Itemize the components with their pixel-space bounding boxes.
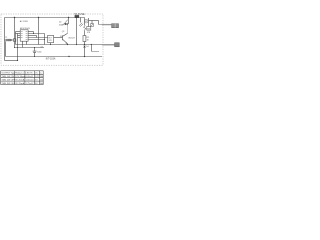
wire contact horizontal xyxy=(91,50,99,52)
wire x=91.3 contact drop xyxy=(90,45,92,52)
svg-text:OUTPUT Typ: OUTPUT Typ xyxy=(1,73,15,75)
svg-text:TMG 3W OFF: TMG 3W OFF xyxy=(1,83,15,85)
wire external cable top xyxy=(102,24,112,26)
node dot xyxy=(17,47,18,48)
op-amp U1 box xyxy=(20,30,28,41)
wire x=80.5 down xyxy=(80,18,82,23)
node dot xyxy=(66,23,67,24)
wire U1 right pin 5 xyxy=(28,39,44,41)
node dot xyxy=(84,44,85,45)
fuse F1 xyxy=(75,15,80,18)
wire C3 stub xyxy=(91,21,93,24)
wire corner to x=84.5 xyxy=(84,18,86,26)
node dot xyxy=(14,47,15,48)
node dot x=76.5 on rail xyxy=(76,44,77,45)
resistor R2 column x=84.5 xyxy=(84,31,86,36)
varistor zigzag xyxy=(84,26,86,31)
wire x=88.5 xyxy=(88,18,90,27)
svg-text:5V 20mA: 5V 20mA xyxy=(15,79,25,82)
svg-text:100n: 100n xyxy=(37,52,41,54)
wire x=68.5 down xyxy=(68,18,70,25)
table parts list xyxy=(1,71,44,85)
node dot xyxy=(84,56,85,57)
svg-text:AC 230V: AC 230V xyxy=(20,20,29,23)
node rail right xyxy=(76,17,77,18)
X box component xyxy=(13,39,16,42)
wire x=38.5 down xyxy=(38,18,40,45)
wire x=14.5 down xyxy=(14,18,16,39)
LED D3 arrows xyxy=(79,23,83,27)
svg-text:12V 30mA: 12V 30mA xyxy=(15,75,26,78)
diode D2 xyxy=(65,23,67,25)
wire U1 right pin 3 xyxy=(28,35,36,37)
U1 pin ticks inside xyxy=(21,32,28,40)
wire x=44.5 vertical xyxy=(44,34,46,45)
wire exit top y=20.5 xyxy=(89,20,99,22)
wire x=17.5 joins rails xyxy=(17,57,19,61)
node rail diode xyxy=(68,17,69,18)
node dot bottom xyxy=(17,60,18,61)
svg-text:12V: 12V xyxy=(35,76,39,78)
svg-text:TMG 1W ON: TMG 1W ON xyxy=(1,76,14,78)
node dot xyxy=(44,39,45,40)
terminal strip T1 ticks xyxy=(6,39,10,41)
wire bottom outer xyxy=(5,60,18,62)
wire left vertical xyxy=(4,18,6,61)
wire collector up xyxy=(67,24,69,33)
box R9 xyxy=(87,27,91,31)
wire relay to Q1 base xyxy=(54,37,63,39)
svg-text:BC547: BC547 xyxy=(69,38,76,40)
wire U1 bottom pins xyxy=(22,41,24,47)
wire jog down xyxy=(98,21,100,25)
wire corner down xyxy=(33,32,35,34)
switch diagonal SW1 xyxy=(63,20,68,26)
wire U1 right pin 1 xyxy=(28,31,33,33)
terminal block J1 xyxy=(112,24,119,28)
relay RL1 box xyxy=(48,35,54,42)
wire external cable bottom xyxy=(102,44,115,46)
wire comb return xyxy=(5,41,7,56)
svg-text:LED Hi: LED Hi xyxy=(26,73,33,75)
wire mid rail y=44.5 xyxy=(16,44,115,46)
wire U1 right pin 4 to relay xyxy=(28,37,47,39)
wire relay bottom stub xyxy=(50,43,52,45)
svg-text:TMG 2W OFF: TMG 2W OFF xyxy=(1,80,15,82)
node dots cap xyxy=(34,47,35,48)
diode D4 down xyxy=(83,46,85,48)
node dot on bottom rail xyxy=(68,56,69,57)
svg-text:9V 25mA: 9V 25mA xyxy=(15,82,25,85)
enclosure dashed border xyxy=(1,14,103,65)
wire corner down xyxy=(36,36,38,38)
node A xyxy=(14,17,15,18)
wire across T1 xyxy=(5,39,14,41)
node dot emitter xyxy=(67,44,68,45)
terminal block J2 xyxy=(115,43,120,47)
node dot xyxy=(11,39,12,40)
svg-text:4148: 4148 xyxy=(59,24,63,26)
Q1 emitter arrow xyxy=(66,42,68,44)
svg-text:D4: D4 xyxy=(86,46,88,48)
wire top rail xyxy=(5,17,85,19)
node top rail center xyxy=(38,17,39,18)
wire mid rail y=47.5 xyxy=(14,47,44,49)
svg-text:T1: T1 xyxy=(5,37,7,39)
svg-text:Relay Lo: Relay Lo xyxy=(15,73,24,75)
wire bottom rail xyxy=(6,56,103,58)
circle meter R xyxy=(84,19,88,23)
wire emitter down xyxy=(67,43,69,46)
wire to terminal 1 xyxy=(99,24,112,26)
capacitor C3 small box xyxy=(91,24,94,27)
wire diode left xyxy=(64,23,65,25)
svg-text:KIT-103A: KIT-103A xyxy=(46,58,56,61)
wire below X box xyxy=(14,41,16,47)
wire U1 right pin 2 xyxy=(28,33,44,35)
svg-text:D2: D2 xyxy=(59,22,61,24)
capacitor C1 xyxy=(34,48,36,51)
table text rows xyxy=(1,73,43,85)
wire U1 left pins xyxy=(16,32,21,38)
node dot xyxy=(33,33,34,34)
svg-text:1.75x12: 1.75x12 xyxy=(26,83,35,85)
transistor Q1 xyxy=(63,33,68,43)
wire left bundle verticals xyxy=(15,32,17,45)
svg-text:1.05x11: 1.05x11 xyxy=(26,76,34,78)
svg-text:1.60x10: 1.60x10 xyxy=(26,80,35,82)
wire x=76.5 down long xyxy=(76,18,78,45)
